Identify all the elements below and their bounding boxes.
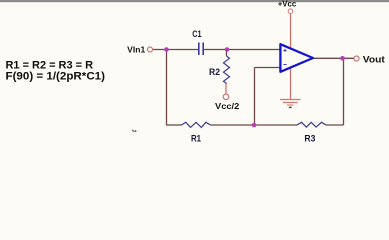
svg-text:Vout: Vout: [363, 54, 385, 64]
svg-text:C1: C1: [192, 29, 201, 39]
svg-text:R1: R1: [191, 134, 201, 144]
svg-text:F(90) = 1/(2pR*C1): F(90) = 1/(2pR*C1): [6, 71, 106, 83]
svg-text:VIn1: VIn1: [127, 44, 145, 54]
svg-text:+Vcc: +Vcc: [278, 0, 297, 8]
svg-text:R3: R3: [304, 134, 315, 144]
svg-text:Vcc/2: Vcc/2: [215, 101, 240, 111]
svg-text:R2: R2: [209, 67, 220, 77]
